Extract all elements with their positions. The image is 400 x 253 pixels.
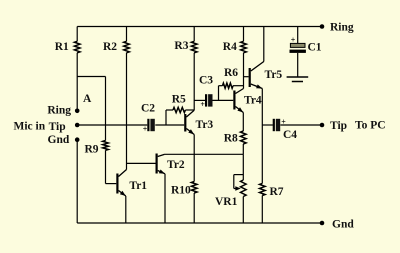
- capacitor C3: [200, 94, 212, 109]
- wire Tr5 collector up to rail: [263, 27, 265, 62]
- node A: [83, 93, 92, 105]
- svg-text:C3: C3: [199, 75, 213, 87]
- resistor R10: [191, 182, 197, 194]
- svg-text:C1: C1: [308, 42, 322, 54]
- label Tr3: [196, 119, 214, 131]
- svg-text:Tr3: Tr3: [196, 119, 214, 131]
- wire VR1 column: [242, 154, 244, 223]
- svg-text:Mic in: Mic in: [14, 121, 46, 133]
- label To PC: [355, 120, 386, 132]
- svg-text:+: +: [143, 125, 148, 134]
- svg-text:To PC: To PC: [355, 120, 386, 132]
- label R7: [270, 186, 284, 198]
- wire R1 column (top rail to Ring terminal): [76, 27, 78, 111]
- label Tr4: [244, 95, 262, 107]
- wire Tr4 emitter down to R8: [242, 113, 244, 155]
- wire C2 to Tr3 base: [155, 124, 184, 126]
- resistor R7: [260, 183, 266, 195]
- label Ring (input): [47, 105, 71, 117]
- wire Tip input to C2: [77, 124, 147, 126]
- node Tip input terminal: [75, 123, 80, 128]
- transistor Tr2: [156, 154, 166, 174]
- label R5: [172, 94, 186, 106]
- wire Tr5 emitter / C4 / R7 column: [261, 89, 263, 224]
- label R9: [85, 144, 99, 156]
- resistor R1: [74, 41, 80, 53]
- svg-text:Tr2: Tr2: [167, 159, 185, 171]
- label Tr2: [167, 159, 185, 171]
- svg-text:C4: C4: [283, 129, 297, 141]
- svg-text:A: A: [83, 93, 92, 105]
- label C3: [199, 75, 213, 87]
- svg-text:Tip: Tip: [49, 121, 66, 133]
- wire C4 to Tip terminal: [280, 124, 322, 126]
- wire Tr1 emitter down: [125, 196, 127, 223]
- wire Tr5 base tap: [244, 76, 249, 78]
- label Gnd (input): [48, 134, 70, 146]
- svg-text:VR1: VR1: [215, 196, 238, 208]
- label Mic in: [14, 121, 46, 133]
- wire top supply rail: [77, 26, 322, 28]
- node Ring output terminal: [320, 24, 325, 29]
- wire C1 drop from rail: [297, 27, 299, 44]
- wire node-A branch to R9: [77, 76, 105, 78]
- wire C4 branch left: [262, 124, 273, 126]
- svg-text:R8: R8: [224, 133, 238, 145]
- wire Tr2 emitter down: [164, 174, 166, 223]
- svg-text:R10: R10: [171, 185, 191, 197]
- capacitor C2: [143, 119, 155, 134]
- svg-text:Tip: Tip: [330, 120, 347, 132]
- label R4: [223, 41, 237, 53]
- wire R4 column (rail to Tr4 collector): [243, 27, 245, 89]
- node Tip output terminal: [320, 123, 325, 128]
- label Gnd (bottom right): [332, 218, 354, 230]
- svg-text:+: +: [200, 100, 205, 109]
- label VR1: [215, 196, 238, 208]
- capacitor C4: [273, 117, 287, 131]
- wire C1 to ground symbol: [297, 53, 299, 77]
- svg-text:Ring: Ring: [47, 105, 71, 117]
- wire R9 column lower + Tr1 base: [106, 150, 117, 183]
- transistor Tr3: [184, 110, 194, 134]
- label C4: [283, 129, 297, 141]
- svg-text:R9: R9: [85, 144, 99, 156]
- wire Tr3 emitter down to R10 and bottom rail: [193, 135, 195, 224]
- wire Tr2 base branch: [127, 162, 156, 164]
- svg-text:Tr5: Tr5: [265, 69, 283, 81]
- svg-text:Tr1: Tr1: [129, 180, 147, 192]
- resistor R2: [124, 41, 130, 53]
- label R10: [171, 185, 191, 197]
- resistor R5: [173, 107, 185, 112]
- resistor R6: [223, 83, 234, 88]
- wire bottom ground rail: [77, 222, 322, 224]
- wire R5 riser: [166, 110, 173, 125]
- svg-text:R3: R3: [174, 40, 188, 52]
- wire C3 link (Tr3 collector line to Tr4 base): [194, 99, 233, 101]
- transistor Tr4: [233, 89, 243, 113]
- svg-text:R4: R4: [223, 41, 237, 53]
- svg-text:R1: R1: [55, 41, 69, 53]
- svg-text:R5: R5: [172, 94, 186, 106]
- label Tr5: [265, 69, 283, 81]
- wire collector junction rail (Tr2 C to VR1 top): [165, 153, 244, 155]
- resistor R8: [241, 131, 247, 144]
- transistor Tr1: [116, 170, 126, 197]
- label Tr1: [129, 180, 147, 192]
- label R1: [55, 41, 69, 53]
- label R3: [174, 40, 188, 52]
- ground symbol (C1): [287, 77, 309, 82]
- capacitor C1: [290, 35, 306, 53]
- resistor R3: [191, 41, 197, 53]
- svg-text:+: +: [291, 35, 296, 44]
- label Tip (output): [330, 120, 347, 132]
- svg-text:C2: C2: [141, 102, 155, 114]
- svg-text:Ring: Ring: [330, 22, 354, 34]
- svg-text:Tr4: Tr4: [244, 95, 262, 107]
- wire R9 column upper: [105, 77, 107, 141]
- wire R6 right to Tr4 collector line: [233, 85, 244, 87]
- resistor R9: [103, 141, 109, 151]
- transistor Tr5: [249, 62, 264, 89]
- svg-text:Gnd: Gnd: [332, 218, 354, 230]
- node Gnd output terminal: [320, 221, 325, 226]
- svg-text:Gnd: Gnd: [48, 134, 70, 146]
- svg-text:R7: R7: [270, 186, 284, 198]
- svg-text:+: +: [281, 117, 286, 126]
- wire R3 column (rail to Tr3 collector): [193, 27, 195, 111]
- svg-text:R6: R6: [224, 67, 238, 79]
- svg-text:R2: R2: [103, 41, 117, 53]
- node Ring input terminal: [75, 109, 80, 114]
- wire R6 left drop: [219, 86, 223, 101]
- label C1: [308, 42, 322, 54]
- label R8: [224, 133, 238, 145]
- wire R2 column (rail to Tr1 collector): [126, 27, 128, 170]
- wire Gnd terminal down to bottom rail: [76, 140, 78, 223]
- node Gnd input terminal: [75, 137, 80, 142]
- resistor R4: [241, 41, 247, 53]
- label R6: [224, 67, 238, 79]
- label Ring (top right): [330, 22, 354, 34]
- label Tip (input): [49, 121, 66, 133]
- label R2: [103, 41, 117, 53]
- wire R5 right to Tr3 collector line: [185, 109, 194, 111]
- label C2: [141, 102, 155, 114]
- potentiometer VR1: [234, 175, 246, 197]
